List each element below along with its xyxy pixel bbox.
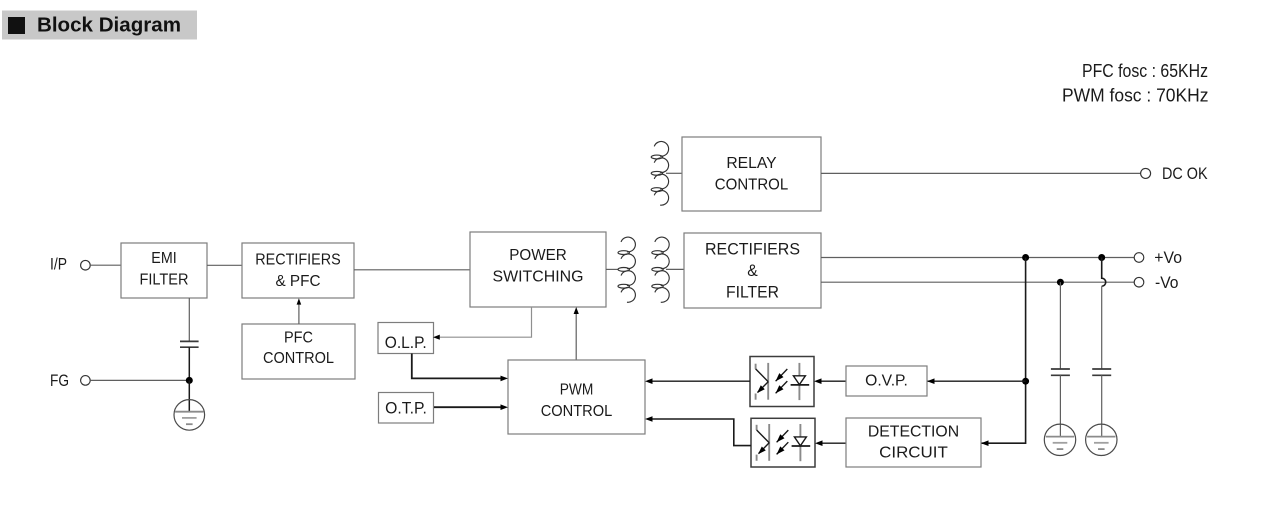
- svg-text:RECTIFIERS: RECTIFIERS: [705, 239, 800, 258]
- svg-text:& PFC: & PFC: [276, 273, 321, 290]
- transformer auxiliary winding (relay): [651, 142, 668, 206]
- svg-text:Block Diagram: Block Diagram: [37, 15, 181, 37]
- svg-text:CIRCUIT: CIRCUIT: [879, 444, 948, 461]
- wire O.L.P. to PWM CONTROL (arrow right): [412, 354, 501, 379]
- wire PFC CONTROL to RECTIFIERS & PFC (arrow up): [297, 298, 302, 324]
- block O.T.P.: [379, 393, 434, 424]
- svg-text:FILTER: FILTER: [140, 271, 189, 288]
- terminal -Vo: [1134, 277, 1144, 287]
- svg-text:O.L.P.: O.L.P.: [385, 333, 427, 352]
- block POWER SWITCHING: [470, 232, 606, 307]
- wire capacitor 2 to earth ground 2: [1101, 375, 1103, 436]
- capacitor Y (EMI to FG): [180, 341, 199, 347]
- wire O.T.P. to PWM CONTROL (arrow right): [434, 406, 501, 408]
- terminal DC OK: [1141, 168, 1151, 178]
- wire optocoupler U1 to PWM CONTROL (arrow left): [652, 380, 750, 382]
- svg-text:PWM: PWM: [560, 382, 594, 399]
- svg-text:O.T.P.: O.T.P.: [385, 398, 427, 417]
- svg-text:SWITCHING: SWITCHING: [493, 268, 584, 285]
- svg-text:&: &: [747, 261, 758, 280]
- ground output earth 2: [1086, 424, 1117, 455]
- svg-text:DETECTION: DETECTION: [868, 424, 959, 441]
- capacitor output 1: [1051, 369, 1070, 375]
- wire I/P to EMI FILTER: [90, 264, 121, 266]
- svg-text:PFC fosc : 65KHz: PFC fosc : 65KHz: [1082, 61, 1208, 81]
- block O.V.P.: [846, 366, 927, 396]
- svg-text:I/P: I/P: [50, 255, 67, 274]
- wire auxiliary winding to RELAY CONTROL: [666, 172, 682, 174]
- wire DETECTION CIRCUIT to optocoupler U2 (arrow left): [822, 442, 846, 444]
- wire POWER SWITCHING to O.L.P. (arrow left): [440, 307, 532, 337]
- block RECTIFIERS & PFC: [242, 243, 354, 298]
- wire branch to O.V.P.: [927, 380, 1026, 382]
- wire FG to node: [90, 379, 189, 381]
- wire capacitor 1 to earth ground 1: [1059, 375, 1061, 436]
- wire RELAY CONTROL to DC OK terminal: [821, 172, 1141, 174]
- wire capacitor to FG node: [188, 347, 190, 380]
- transformer primary winding: [618, 237, 635, 302]
- wire +Vo down to capacitor 2 (hop over -Vo): [1102, 258, 1106, 287]
- node FG junction: [186, 377, 193, 384]
- block RELAY CONTROL: [682, 137, 821, 211]
- ground FG earth: [174, 400, 205, 431]
- svg-text:PFC: PFC: [284, 329, 313, 346]
- svg-text:RELAY: RELAY: [726, 155, 777, 172]
- svg-text:+Vo: +Vo: [1154, 248, 1182, 267]
- block DETECTION CIRCUIT: [846, 418, 981, 467]
- svg-text:POWER: POWER: [509, 247, 567, 264]
- wire -Vo rail: [821, 281, 1134, 283]
- ground output earth 1: [1044, 424, 1075, 455]
- svg-text:FILTER: FILTER: [726, 283, 779, 302]
- wire RECTIFIERS & PFC to POWER SWITCHING: [354, 269, 470, 271]
- terminal +Vo: [1134, 253, 1144, 263]
- optocoupler U1 (OVP feedback): [750, 357, 814, 407]
- wire +Vo rail: [821, 257, 1134, 259]
- node O.V.P. branch junction: [1022, 378, 1029, 385]
- wire EMI FILTER to RECTIFIERS & PFC: [207, 264, 242, 266]
- svg-text:CONTROL: CONTROL: [541, 403, 613, 420]
- node -Vo junction to output capacitor 1: [1057, 279, 1064, 286]
- block PWM CONTROL: [508, 360, 645, 434]
- svg-text:-Vo: -Vo: [1155, 273, 1179, 292]
- transformer secondary winding: [652, 237, 669, 302]
- svg-text:EMI: EMI: [151, 250, 176, 267]
- capacitor output 2: [1092, 369, 1111, 375]
- svg-text:PWM fosc : 70KHz: PWM fosc : 70KHz: [1062, 86, 1209, 106]
- wire EMI FILTER down to Y-capacitor: [188, 298, 190, 341]
- wire POWER SWITCHING to transformer primary: [606, 268, 619, 270]
- wire optocoupler U2 to PWM CONTROL (arrow left): [652, 419, 751, 446]
- svg-text:CONTROL: CONTROL: [263, 350, 334, 367]
- block EMI FILTER: [121, 243, 207, 298]
- block RECTIFIERS & FILTER: [684, 233, 821, 308]
- section title bar: [2, 11, 197, 40]
- wire -Vo down to capacitor 1: [1059, 282, 1061, 369]
- wire FG node to earth ground: [188, 380, 190, 411]
- wire feedback rail down from +Vo: [981, 258, 1026, 444]
- wire transformer secondary to RECTIFIERS & FILTER: [666, 268, 684, 270]
- optocoupler U2 (voltage feedback): [751, 418, 815, 467]
- node +Vo junction to output capacitor 2: [1098, 254, 1105, 261]
- node +Vo junction to feedback rail: [1022, 254, 1029, 261]
- svg-text:O.V.P.: O.V.P.: [865, 373, 908, 390]
- block PFC CONTROL: [242, 324, 355, 379]
- svg-text:CONTROL: CONTROL: [715, 176, 788, 193]
- svg-text:DC OK: DC OK: [1162, 164, 1208, 183]
- terminal I/P: [81, 260, 91, 270]
- block O.L.P.: [378, 323, 434, 354]
- svg-text:FG: FG: [50, 371, 69, 390]
- wire O.V.P. to optocoupler U1 (arrow left): [821, 380, 846, 382]
- svg-text:RECTIFIERS: RECTIFIERS: [255, 251, 341, 268]
- wire PWM CONTROL to POWER SWITCHING (arrow up): [575, 311, 577, 360]
- terminal FG: [81, 376, 91, 386]
